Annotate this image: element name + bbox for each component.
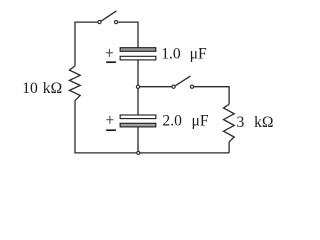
value label 2.0 uF — [162, 113, 208, 130]
switch S1 left contact — [98, 21, 101, 24]
value label 10 kOhm — [22, 80, 62, 97]
value label 1.0 uF — [161, 46, 207, 63]
switch S2 blade — [175, 76, 190, 86]
value label 3 kOhm — [237, 114, 274, 131]
svg-text:1.0 μF: 1.0 μF — [161, 46, 207, 63]
resistor R2 3 kOhm zigzag — [224, 104, 235, 142]
label + of C2 — [106, 116, 113, 124]
wire: left vertical upper segment — [75, 22, 97, 66]
wire: right vertical lower segment — [228, 142, 230, 153]
wire: C1 bottom to C2 top through node A — [137, 60, 139, 115]
label - of C2 — [106, 129, 116, 131]
switch S1 right contact — [115, 21, 118, 24]
node B (open junction on bottom rail) — [137, 127, 140, 154]
resistor R1 10 kOhm zigzag — [69, 66, 80, 101]
wire: middle rail from node A to switch S2 — [140, 86, 172, 88]
wire: bottom rail — [75, 152, 229, 154]
svg-text:2.0 μF: 2.0 μF — [162, 113, 208, 130]
svg-text:3 kΩ: 3 kΩ — [237, 114, 274, 131]
capacitor C2 bottom plate — [120, 123, 156, 127]
svg-text:10 kΩ: 10 kΩ — [22, 80, 62, 97]
wire: top rail to capacitor C1 drop — [118, 22, 138, 47]
switch S2 right contact — [190, 85, 193, 88]
label + of C1 — [106, 49, 113, 57]
capacitor C1 bottom plate — [120, 56, 156, 60]
switch S1 blade — [101, 11, 116, 21]
wire: left vertical lower segment — [74, 101, 76, 154]
wire: middle rail to right branch corner — [194, 87, 229, 105]
capacitor C2 top plate — [120, 115, 156, 119]
capacitor C1 top plate — [120, 48, 156, 52]
switch S2 left contact — [172, 85, 175, 88]
node A (open junction between capacitors) — [136, 85, 139, 88]
label - of C1 — [106, 61, 116, 63]
